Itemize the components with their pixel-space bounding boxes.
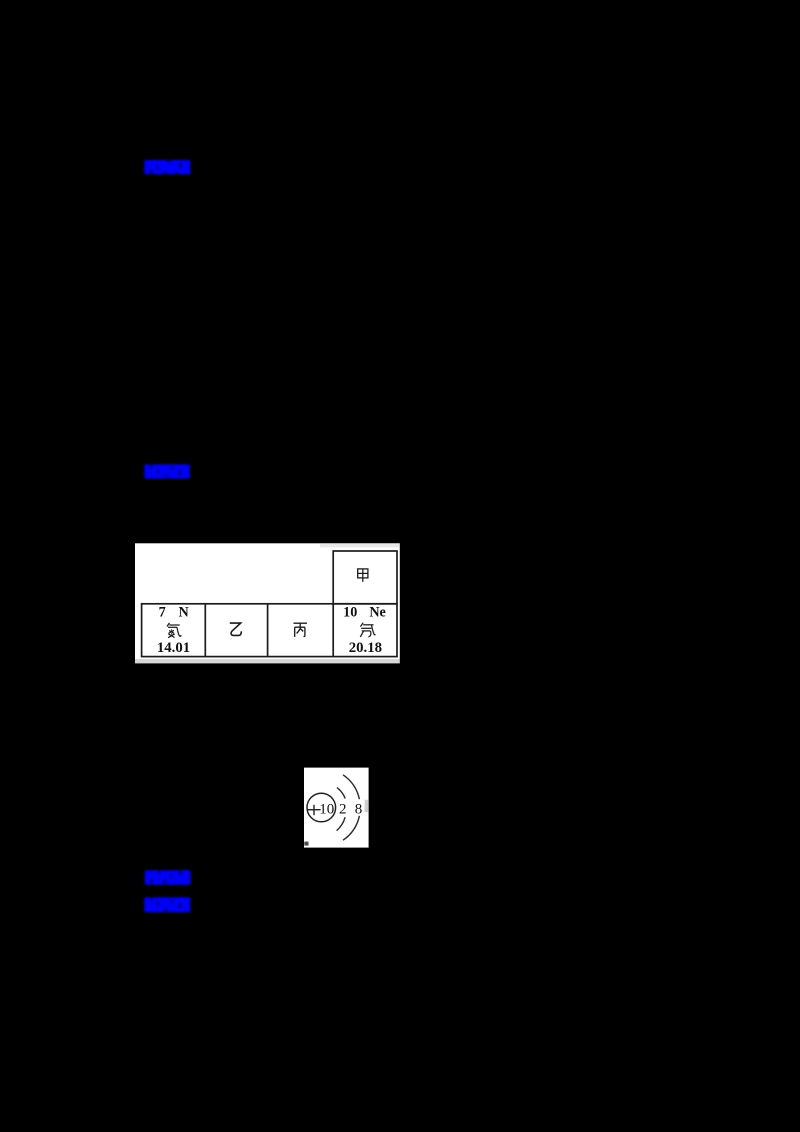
shell arc 1 lower <box>337 817 346 830</box>
svg-text:8: 8 <box>355 801 363 817</box>
table grid lines <box>142 551 397 657</box>
shell arc 1 upper <box>337 788 345 799</box>
answer label 3 <box>145 870 191 884</box>
cell Ne: 10 Ne / nai / 20.18 <box>343 604 386 656</box>
answer label 1 <box>144 160 190 174</box>
nai 氖 glyph <box>360 623 375 637</box>
cell bing: 丙 <box>294 623 308 637</box>
cell N: 7 N / dan / 14.01 <box>157 604 190 656</box>
shell arc 2 lower <box>343 816 359 840</box>
atom structure image (white background) <box>304 768 369 848</box>
nucleus circle <box>307 793 336 822</box>
svg-text:10: 10 <box>343 604 357 620</box>
svg-text:Ne: Ne <box>369 604 386 620</box>
svg-text:7: 7 <box>159 604 166 620</box>
svg-text:10: 10 <box>319 801 334 817</box>
plus sign <box>308 805 321 815</box>
answer label 4 <box>144 897 190 912</box>
svg-text:14.01: 14.01 <box>157 640 190 656</box>
svg-text:2: 2 <box>339 801 347 817</box>
svg-text:20.18: 20.18 <box>349 640 382 656</box>
cell yi: 乙 <box>230 623 242 635</box>
shell arc 2 upper <box>343 775 359 799</box>
cell jia (top right): 甲 <box>358 569 368 582</box>
periodic table image (white background) <box>135 543 400 663</box>
svg-text:N: N <box>178 604 189 620</box>
answer label 2 <box>144 464 190 478</box>
dan 氮 glyph <box>167 623 181 638</box>
